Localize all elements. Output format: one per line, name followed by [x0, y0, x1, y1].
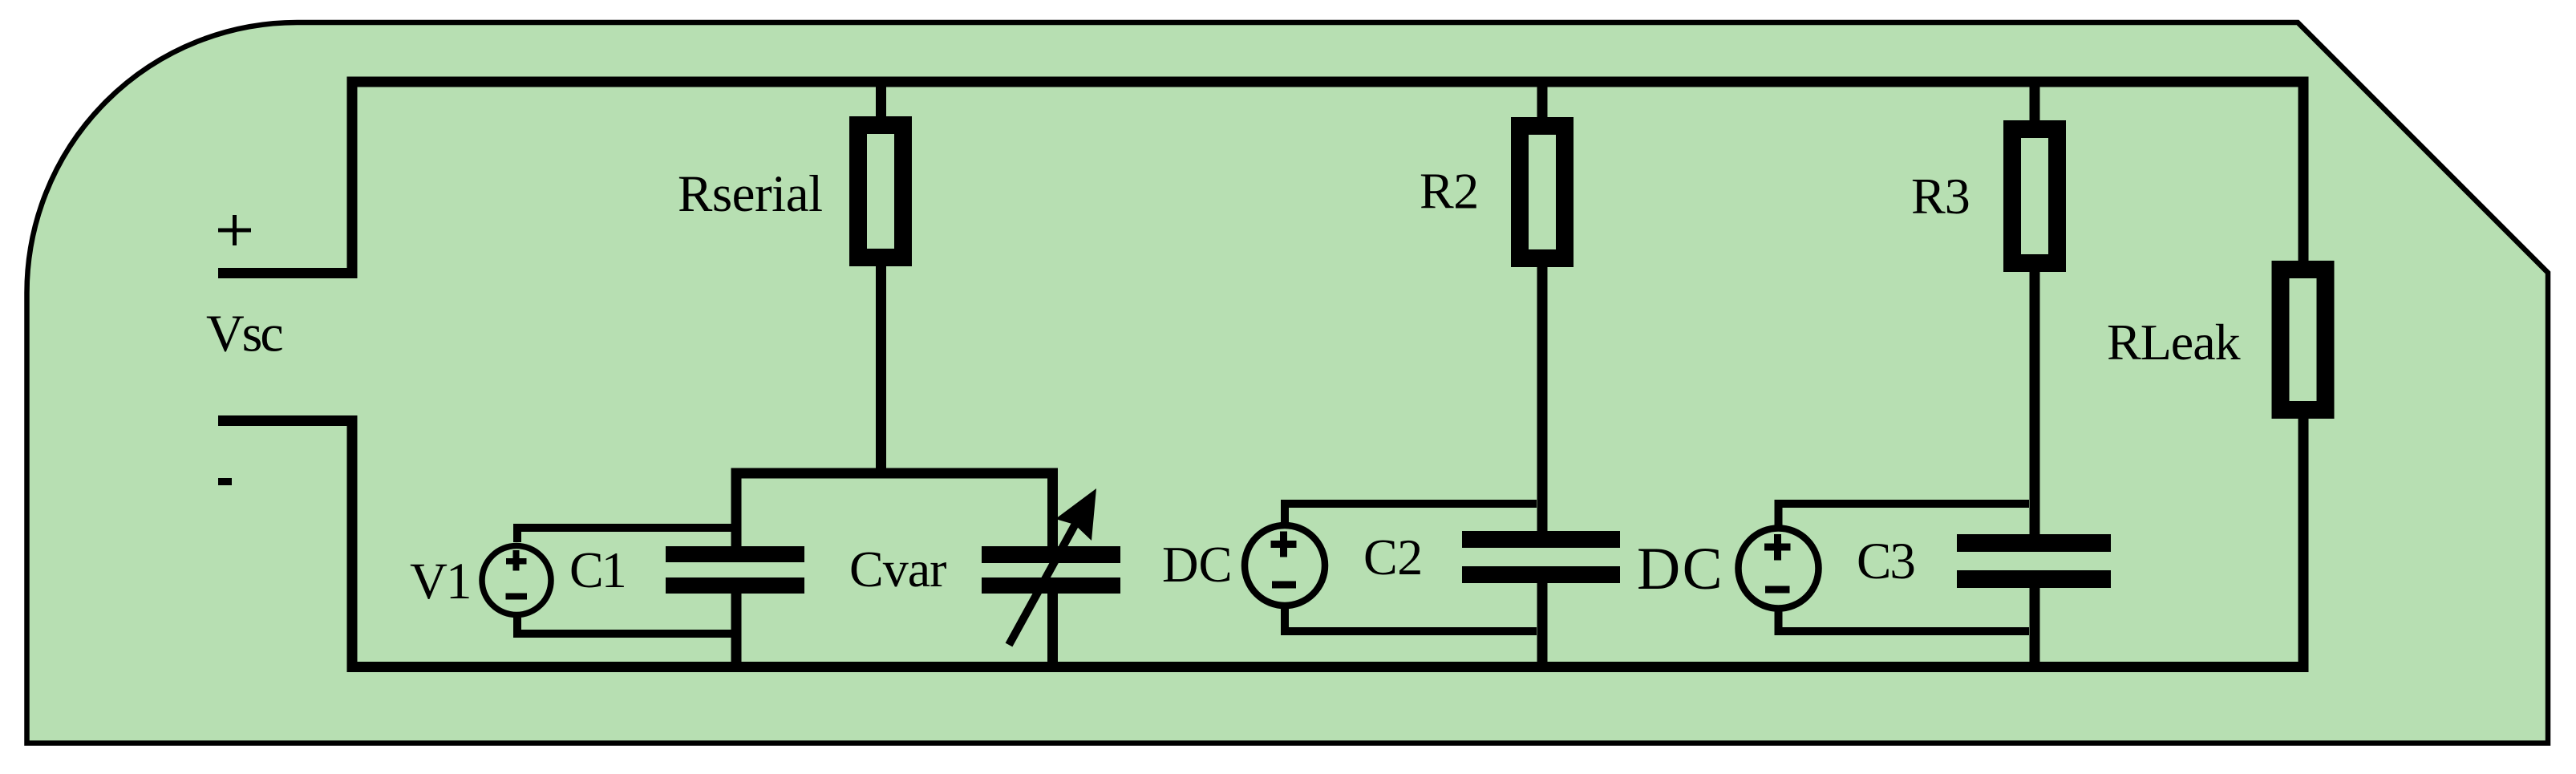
capacitor C2 top plate — [1462, 531, 1620, 548]
capacitor C1 top plate — [666, 546, 804, 562]
wire: Vsc - terminal stub — [218, 415, 358, 426]
wire: DC2 loop bottom — [1779, 610, 2030, 631]
capacitor C2 bottom plate — [1462, 566, 1620, 583]
node V1 + mark — [506, 550, 527, 571]
capacitor Cvar top plate — [982, 546, 1120, 563]
svg-text:R3: R3 — [1911, 168, 1970, 225]
wire: V1 loop bottom — [517, 618, 735, 634]
wire: Rserial bottom stem to Cvar box — [876, 262, 886, 473]
wire: Rserial top stem — [876, 80, 886, 120]
node DC2 - mark — [1765, 586, 1790, 594]
node DC2 + mark — [1764, 534, 1791, 561]
wire: DC1 loop top — [1285, 504, 1537, 525]
resistor RLeak — [2281, 269, 2326, 410]
wire: C1 vertical upper (box left edge) — [731, 468, 742, 549]
voltage source DC1 — [1245, 525, 1325, 606]
wire: bottom bus — [347, 662, 2309, 672]
resistor Rserial — [858, 125, 903, 257]
svg-text:DC: DC — [1637, 536, 1724, 602]
wire: DC2 loop top — [1779, 504, 2030, 527]
resistor R2 — [1520, 126, 1565, 258]
svg-text:C2: C2 — [1363, 529, 1423, 586]
wire: R3 top stem — [2030, 80, 2040, 124]
svg-text:C1: C1 — [569, 541, 625, 598]
svg-text:DC: DC — [1162, 537, 1233, 593]
wire: Cvar vertical upper (box right edge) — [1047, 468, 1058, 549]
Cvar arrow shaft — [1009, 508, 1084, 645]
wire: top bus from left branch to RLeak branch — [347, 77, 2309, 87]
voltage source V1 — [482, 546, 551, 615]
wire: Vsc + terminal stub — [218, 268, 358, 278]
svg-text:Cvar: Cvar — [849, 541, 946, 598]
wire: R2 top stem — [1537, 80, 1548, 120]
wire: RLeak top stem — [2299, 80, 2309, 265]
node - symbol of Vsc — [218, 478, 232, 485]
node V1 - mark — [506, 594, 528, 600]
svg-text:R2: R2 — [1420, 163, 1479, 220]
svg-text:Vsc: Vsc — [206, 305, 282, 363]
capacitor C3 top plate — [1957, 534, 2111, 552]
node + symbol of Vsc — [218, 215, 251, 245]
wire: V1 loop top — [517, 528, 735, 542]
wire: DC1 loop bottom — [1285, 606, 1537, 631]
wire: RLeak bottom stem — [2299, 415, 2309, 672]
wire: R2 bottom stem down to C2 — [1537, 263, 1548, 533]
resistor R3 — [2012, 129, 2057, 263]
node DC1 - mark — [1272, 582, 1296, 589]
capacitor Cvar bottom plate — [982, 577, 1120, 594]
Cvar arrowhead — [1055, 488, 1096, 541]
wire: C2 vertical lower — [1537, 582, 1548, 671]
voltage source DC2 — [1739, 529, 1819, 609]
capacitor C3 bottom plate — [1957, 570, 2111, 588]
wire: R3 bottom stem down to C3 — [2030, 268, 2040, 536]
svg-text:Rserial: Rserial — [678, 165, 823, 223]
wire: left vertical from top bus down to + terminal — [347, 77, 358, 279]
wire: C1 vertical lower — [731, 592, 742, 671]
svg-text:RLeak: RLeak — [2107, 314, 2241, 371]
node DC1 + mark — [1271, 532, 1297, 557]
capacitor C1 bottom plate — [666, 577, 804, 594]
wire: Cvar box top edge — [731, 468, 1058, 479]
wire: C3 vertical lower — [2030, 586, 2040, 671]
wire: left vertical from - terminal down to bottom bus — [347, 415, 358, 672]
svg-text:V1: V1 — [410, 553, 470, 610]
svg-text:C3: C3 — [1857, 533, 1914, 590]
wire: Cvar vertical lower — [1047, 592, 1058, 671]
